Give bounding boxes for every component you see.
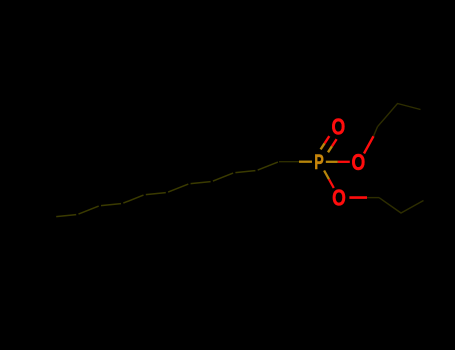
bond P-O2 [326,161,338,163]
svg-text:P: P [314,150,324,174]
bond O2-C [364,136,374,153]
alkyl chain [258,162,278,170]
svg-text:O: O [332,187,346,212]
svg-text:O: O [352,151,366,176]
O3 [332,187,346,212]
ethyl bottom [379,198,424,213]
O1 [332,116,346,141]
double bond P=O line B [328,146,332,152]
bond P-O3 [324,171,329,180]
P [314,150,324,174]
bond O3-C [349,196,367,199]
bond C1-P [279,161,299,163]
svg-text:O: O [332,116,346,141]
O2 [352,151,366,176]
double bond P=O line A [321,143,325,149]
ethyl top [378,104,421,127]
